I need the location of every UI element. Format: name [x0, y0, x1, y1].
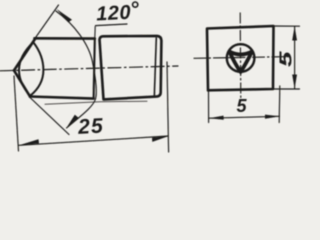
arc arrowhead bottom	[66, 115, 78, 128]
body right section outline	[100, 36, 162, 100]
dim 5 (horizontal): dimension line	[209, 116, 280, 118]
dim 25: right arrowhead	[152, 136, 168, 142]
body left section: top edge	[35, 37, 95, 40]
dim 5 (vertical): dimension line	[294, 27, 296, 89]
dim 5 (vertical): top extension	[272, 25, 300, 27]
dim 25: right extension line	[167, 62, 169, 152]
dim 5 (horizontal): left extension	[208, 92, 210, 123]
cone base curve (right curve)	[31, 43, 44, 96]
body left section: right edge	[94, 39, 95, 99]
right view: vertical centerline	[239, 13, 242, 100]
faint double-stroke under body bottom edge	[45, 101, 147, 104]
dim 25: left arrowhead	[19, 139, 39, 145]
right view: horizontal centerline	[194, 57, 291, 59]
svg-text:120: 120	[96, 2, 132, 26]
cone front-face hyperbola (left curve)	[19, 42, 34, 96]
dim 5 (vertical): bottom arrowhead	[292, 75, 297, 89]
thin vertical continuation up to label shelf	[94, 27, 97, 46]
left view: centerline (axis)	[0, 66, 178, 71]
dim 5 (horizontal): right arrowhead	[265, 115, 280, 119]
right view: square outline	[207, 26, 274, 90]
svg-text:5: 5	[237, 96, 248, 116]
dim 25: left extension line	[14, 76, 19, 151]
dim 25: dimension line	[19, 136, 168, 145]
chamfer line near right end	[154, 38, 156, 97]
cone lower edge	[14, 70, 30, 96]
svg-text:25: 25	[77, 115, 105, 139]
body left section: bottom edge	[30, 97, 94, 99]
arc arrowhead top	[56, 9, 72, 23]
degree circle	[133, 2, 138, 7]
svg-text:5: 5	[275, 50, 295, 67]
curved triangle symbol	[229, 52, 252, 72]
angle dimension arc	[56, 11, 96, 128]
dim 5 (horizontal): left arrowhead	[209, 116, 224, 120]
dim 5 (horizontal): right extension	[278, 86, 281, 123]
dim 5 (vertical): top arrowhead	[292, 26, 297, 40]
center circle (cone base)	[227, 44, 255, 72]
angle extension line (lower cone edge extended)	[30, 98, 69, 135]
angle extension line (upper cone edge extended)	[31, 5, 59, 44]
dim 5 (vertical): bottom extension	[273, 88, 300, 90]
label 120deg	[96, 2, 132, 26]
cone upper edge	[14, 39, 35, 70]
label 120 underline (shelf)	[96, 24, 128, 26]
